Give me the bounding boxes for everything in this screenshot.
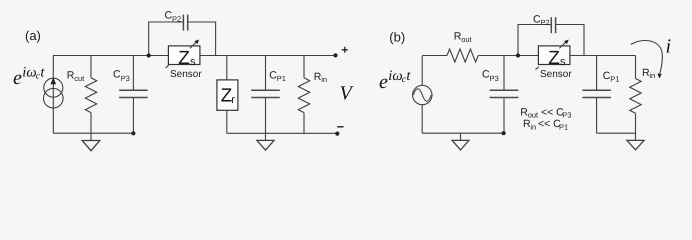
node CP3-ground junction (a) [131, 131, 135, 135]
wire (a) bottom left rail [53, 132, 133, 134]
wire (b) top rail to resistor [422, 55, 447, 57]
label CP1 (b) [603, 70, 620, 84]
svg-text:P3: P3 [490, 74, 499, 83]
label Sensor (b) [536, 67, 573, 80]
svg-text:(b): (b) [389, 30, 405, 45]
svg-text:iω: iω [388, 68, 402, 84]
svg-text:<< C: << C [541, 106, 564, 118]
wire CP2 bypass right post (b) [556, 25, 584, 56]
capacitor CP3 (a) [119, 56, 148, 134]
label Rout (b) [454, 31, 473, 45]
wire (a) top rail right segment [200, 55, 336, 57]
label CP3 (b) [482, 69, 499, 83]
node output minus terminal (a) [335, 132, 339, 136]
label CP1 (a) [269, 70, 286, 84]
svg-text:Sensor: Sensor [170, 69, 202, 80]
wire (a) left rail lower [52, 108, 54, 133]
wire (b) rail box to corner [570, 55, 636, 57]
ground (a) right [257, 133, 274, 150]
ground (b) left [452, 133, 469, 150]
source label e^iwct (a) [13, 64, 45, 89]
svg-text:iω: iω [22, 64, 36, 80]
node CP2 left junction (b) [516, 53, 520, 57]
wire CP2 bypass left post (a) [149, 22, 184, 56]
resistor Rout (b) [447, 49, 478, 62]
svg-text:in: in [530, 122, 536, 131]
label CP3 (a) [113, 68, 130, 83]
resistor Rin (a) [298, 56, 309, 134]
svg-text:P2: P2 [541, 18, 550, 27]
capacitor CP2 (a) [183, 15, 187, 31]
wire (a) bottom right rail [227, 132, 337, 134]
svg-text:out: out [461, 35, 472, 44]
label Sensor (a) [166, 65, 203, 80]
svg-text:in: in [649, 71, 655, 80]
svg-text:P3: P3 [121, 74, 130, 83]
label CP2 (a) [165, 10, 182, 24]
svg-text:<< C: << C [538, 118, 561, 130]
current source I1 (a) [44, 77, 64, 108]
sensor box Zs (b) [538, 46, 570, 69]
condition text Rout << CP3 (b) [520, 106, 571, 119]
wire (a) left rail upper [52, 56, 54, 79]
node CP2 left junction (a) [147, 53, 151, 57]
svg-text:s: s [190, 56, 196, 68]
svg-text:P3: P3 [562, 111, 571, 120]
node CP3-bottom junction (b) [502, 131, 506, 135]
svg-text:P1: P1 [610, 74, 619, 83]
svg-text:e: e [379, 71, 388, 93]
source label e^iwct (b) [379, 68, 411, 93]
svg-text:P2: P2 [172, 14, 181, 23]
wire (b) source rail upper [421, 56, 423, 86]
svg-text:Sensor: Sensor [540, 69, 572, 80]
wire (b) source rail lower [421, 105, 423, 134]
wire (b) rail resistor to box [478, 55, 538, 57]
svg-text:Z: Z [178, 48, 190, 69]
svg-text:i: i [666, 36, 672, 58]
node output plus terminal (a) [333, 53, 337, 57]
condition text Rin << CP1 (b) [523, 118, 568, 131]
label CP2 (b) [533, 13, 550, 27]
minus sign (a) [337, 126, 343, 128]
label Rin (a) [314, 71, 327, 84]
wire CP2 bypass right post (a) [188, 22, 216, 56]
svg-text:(a): (a) [25, 28, 41, 43]
sensor box Zs (a) [168, 46, 200, 69]
label Rcut [67, 70, 85, 83]
impedance box Zr (a) [217, 56, 238, 134]
ground (a) left [82, 133, 100, 151]
capacitor CP3 (b) [490, 56, 519, 134]
capacitor CP2 (b) [551, 17, 555, 33]
AC source V1 (b) [413, 85, 432, 104]
variable arrow Zs (a) [190, 40, 199, 49]
ground (b) right [627, 140, 644, 149]
svg-text:P1: P1 [277, 74, 286, 83]
svg-text:e: e [13, 67, 22, 89]
wire (a) top rail left segment [53, 55, 168, 57]
wire (b) bottom right rail [597, 132, 636, 134]
resistor Rin (b) [630, 56, 641, 141]
svg-text:cut: cut [74, 74, 85, 83]
label Rin (b) [642, 67, 655, 80]
resistor Rcut (a) [85, 56, 96, 134]
capacitor CP1 (b) [582, 56, 611, 134]
wire CP2 bypass left post (b) [518, 25, 551, 56]
variable arrow Zs (b) [559, 40, 568, 49]
svg-text:r: r [231, 94, 235, 106]
svg-text:in: in [321, 75, 327, 84]
wire (b) bottom left rail [422, 132, 503, 134]
svg-text:s: s [560, 56, 566, 68]
svg-text:P1: P1 [559, 122, 568, 131]
plus sign (a) [342, 47, 348, 53]
svg-text:Z: Z [548, 48, 560, 69]
current arrow i (b) [631, 41, 663, 79]
capacitor CP1 (a) [251, 56, 280, 134]
